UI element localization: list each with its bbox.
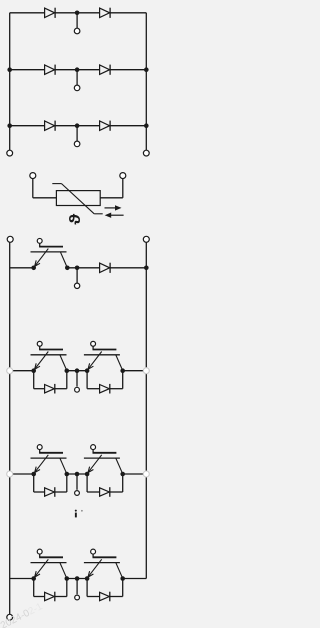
channel bar Q4 <box>31 457 67 459</box>
wire AC1 stub <box>76 13 78 29</box>
gate lead wire Q3 <box>93 346 117 349</box>
diode D6 <box>100 121 111 131</box>
wire phase V row segment a <box>13 473 34 475</box>
wire AC3 stub <box>76 126 78 142</box>
wire phase U row segment a <box>13 370 34 372</box>
gate lead wire Q6 <box>39 554 63 557</box>
terminal DC- inverter <box>143 236 149 242</box>
channel bar Q2 <box>31 354 67 356</box>
freewheel diode DQ7 <box>100 592 110 602</box>
terminal phase U <box>75 387 80 392</box>
arrow left heat-flow <box>105 213 124 218</box>
collector junction Q7 <box>120 576 125 581</box>
wire top bus segment b <box>55 12 100 14</box>
terminal brake left rail <box>7 614 13 620</box>
collector lead Q5 <box>116 458 123 473</box>
wire AC row 2 segment a <box>10 69 45 71</box>
collector junction Q2 <box>65 368 70 373</box>
terminal T1 thermistor <box>30 173 36 179</box>
wire right DC rail <box>145 242 147 578</box>
emitter arrow Q1 <box>35 249 49 267</box>
wire brake stub <box>76 268 78 284</box>
wire left rail rectifier <box>9 13 11 151</box>
freewheel diode loop wire DQ3 <box>87 371 123 389</box>
wire left DC rail <box>9 242 11 614</box>
terminal AC3 <box>74 141 80 147</box>
gate terminal Q6 <box>37 549 42 554</box>
node AC2 junction <box>75 67 80 72</box>
node AC3 junction <box>75 123 80 128</box>
emitter arrow Q4 <box>35 455 49 473</box>
wire phase U row segment b <box>67 370 87 372</box>
collector lead Q7 <box>116 563 123 578</box>
wire AC row 2 segment b <box>55 69 100 71</box>
node phase V junction <box>75 472 80 477</box>
diode D2 <box>100 8 111 18</box>
wire thermistor left lead <box>33 179 57 198</box>
terminal AC2 <box>74 85 80 91</box>
terminal phase V <box>75 491 80 496</box>
theta temperature label <box>67 214 84 225</box>
emitter arrow Q3 <box>88 352 102 370</box>
terminal DC+ inverter <box>7 236 13 242</box>
diode D4 <box>100 65 111 75</box>
gate terminal Q2 <box>37 341 42 346</box>
collector lead Q1 <box>61 252 68 267</box>
thermistor RT1 diagonal stroke <box>52 184 102 214</box>
node AC1 junction <box>75 11 80 16</box>
wire thermistor right lead <box>100 179 123 198</box>
wire phase W row segment b <box>67 578 87 580</box>
channel bar Q7 <box>84 562 120 564</box>
wire phase V row segment c <box>123 473 144 475</box>
node phase U junction <box>75 368 80 373</box>
emitter junction Q5 <box>85 472 90 477</box>
freewheel diode loop wire DQ6 <box>34 579 67 597</box>
wire chopper row segment a <box>10 267 34 269</box>
freewheel diode DQ6 <box>45 592 55 602</box>
gate terminal Q5 <box>91 445 96 450</box>
gate terminal Q7 <box>91 549 96 554</box>
wire chopper row segment c <box>110 267 146 269</box>
emitter junction Q1 <box>31 266 36 271</box>
emitter arrow Q7 <box>88 559 102 577</box>
gate lead wire Q7 <box>93 554 117 557</box>
wire AC row 3 segment a <box>10 125 45 127</box>
channel bar Q5 <box>84 457 120 459</box>
terminal DC- phase U <box>143 368 149 374</box>
collector junction Q1 <box>65 266 70 271</box>
gate lead wire Q2 <box>39 346 63 349</box>
gate terminal Q3 <box>91 341 96 346</box>
terminal DC+ phase U <box>7 368 13 374</box>
freewheel diode loop wire DQ5 <box>87 474 123 492</box>
collector junction Q5 <box>120 472 125 477</box>
freewheel diode DQ5 <box>100 487 110 497</box>
emitter junction Q4 <box>31 472 36 477</box>
collector lead Q3 <box>116 355 123 370</box>
wire AC2 stub <box>76 70 78 86</box>
terminal T2 thermistor <box>120 173 126 179</box>
freewheel diode DQ3 <box>100 384 110 394</box>
wire top bus segment a <box>10 12 45 14</box>
collector junction Q4 <box>65 472 70 477</box>
collector lead Q4 <box>60 458 67 473</box>
node brake junction <box>75 266 80 271</box>
collector lead Q6 <box>60 563 67 578</box>
wire top bus segment c <box>110 12 146 14</box>
junction left rail row 2 <box>7 67 12 72</box>
gate lead wire Q5 <box>93 449 117 452</box>
diode D1 <box>45 8 56 18</box>
gate terminal Q4 <box>37 445 42 450</box>
wire right rail rectifier <box>145 13 147 151</box>
terminal DC- rectifier <box>143 150 149 156</box>
terminal brake chopper <box>74 283 79 288</box>
arrow right heat-flow <box>105 205 122 210</box>
channel bar Q6 <box>31 562 67 564</box>
wire phase W row segment a <box>10 578 34 580</box>
svg-text:ϑ: ϑ <box>67 214 84 225</box>
diode D7 chopper <box>100 263 111 273</box>
gate lead wire Q1 <box>39 243 63 246</box>
wire chopper row segment b <box>67 267 99 269</box>
wire AC row 2 segment c <box>110 69 146 71</box>
gate terminal Q1 <box>37 238 42 243</box>
channel bar Q3 <box>84 354 120 356</box>
node phase W junction <box>75 576 80 581</box>
diode D3 <box>45 65 56 75</box>
wire phase W row segment c <box>123 578 147 580</box>
wire phase U stub <box>76 371 78 387</box>
emitter junction Q2 <box>31 368 36 373</box>
emitter junction Q3 <box>85 368 90 373</box>
wire phase V stub <box>76 474 78 490</box>
junction right rail row 2 <box>144 67 149 72</box>
emitter arrow Q6 <box>35 559 49 577</box>
freewheel diode loop wire DQ2 <box>34 371 67 389</box>
junction right rail chopper <box>144 266 149 271</box>
freewheel diode loop wire DQ7 <box>87 579 123 597</box>
emitter junction Q7 <box>85 576 90 581</box>
wire AC row 3 segment c <box>110 125 146 127</box>
collector junction Q6 <box>65 576 70 581</box>
wire AC row 3 segment b <box>55 125 100 127</box>
terminal DC+ rectifier <box>7 150 13 156</box>
emitter arrow Q5 <box>88 455 102 473</box>
ellipsis more phases <box>75 510 83 518</box>
terminal AC1 <box>74 28 80 34</box>
wire phase V row segment b <box>67 473 87 475</box>
terminal DC- phase V <box>143 471 149 477</box>
channel bar Q1 <box>31 251 67 253</box>
watermark date <box>0 601 45 628</box>
wire phase W stub <box>76 579 78 595</box>
wire phase U row segment c <box>123 370 144 372</box>
thermistor RT1 body <box>56 191 100 206</box>
freewheel diode loop wire DQ4 <box>34 474 67 492</box>
terminal DC+ phase V <box>7 471 13 477</box>
freewheel diode DQ2 <box>45 384 55 394</box>
junction right rail row 3 <box>144 123 149 128</box>
junction left rail row 3 <box>7 123 12 128</box>
emitter junction Q6 <box>31 576 36 581</box>
collector junction Q3 <box>120 368 125 373</box>
emitter arrow Q2 <box>35 352 49 370</box>
terminal phase W <box>75 595 80 600</box>
collector lead Q2 <box>60 355 67 370</box>
freewheel diode DQ4 <box>45 487 55 497</box>
gate lead wire Q4 <box>39 449 63 452</box>
diode D5 <box>45 121 56 131</box>
